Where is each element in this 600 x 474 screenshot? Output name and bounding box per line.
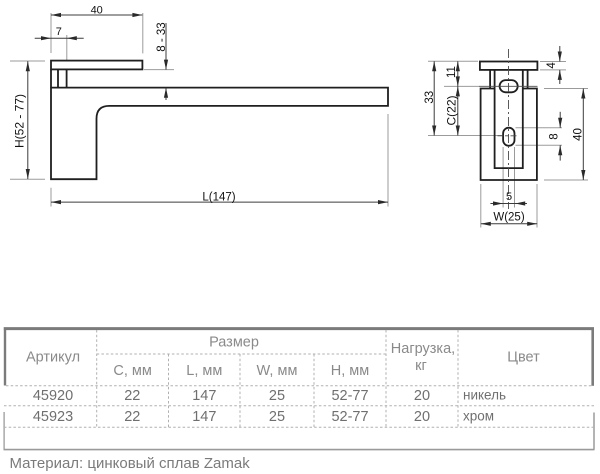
svg-text:40: 40 (91, 4, 103, 16)
svg-text:7: 7 (56, 26, 62, 38)
svg-text:52-77: 52-77 (331, 409, 368, 425)
svg-text:Цвет: Цвет (507, 350, 540, 366)
svg-text:52-77: 52-77 (331, 388, 368, 404)
svg-text:22: 22 (124, 409, 140, 425)
svg-text:4: 4 (546, 62, 558, 69)
svg-text:5: 5 (506, 191, 512, 203)
svg-text:11: 11 (446, 66, 458, 78)
svg-text:хром: хром (463, 408, 494, 423)
svg-text:20: 20 (414, 409, 430, 425)
svg-text:25: 25 (269, 388, 285, 404)
svg-text:L(147): L(147) (202, 191, 235, 203)
svg-text:22: 22 (124, 388, 140, 404)
svg-text:Артикул: Артикул (26, 350, 80, 366)
svg-text:25: 25 (269, 409, 285, 425)
svg-text:C(22): C(22) (445, 95, 459, 125)
svg-text:кг: кг (415, 358, 427, 374)
svg-text:45923: 45923 (33, 409, 73, 425)
svg-text:никель: никель (463, 387, 506, 402)
svg-text:С, мм: С, мм (113, 363, 151, 379)
svg-text:147: 147 (192, 409, 216, 425)
svg-text:H(52 - 77): H(52 - 77) (13, 94, 27, 148)
svg-text:W(25): W(25) (493, 212, 524, 224)
svg-text:20: 20 (414, 388, 430, 404)
svg-text:8: 8 (549, 133, 561, 139)
svg-text:Материал: цинковый сплав Zamak: Материал: цинковый сплав Zamak (10, 455, 251, 472)
svg-text:Нагрузка,: Нагрузка, (391, 341, 455, 357)
svg-text:45920: 45920 (33, 388, 73, 404)
svg-text:40: 40 (573, 128, 585, 141)
svg-text:33: 33 (424, 91, 436, 104)
svg-text:147: 147 (192, 388, 216, 404)
svg-text:8 - 33: 8 - 33 (156, 22, 168, 51)
svg-text:L, мм: L, мм (186, 363, 222, 379)
svg-text:Н, мм: Н, мм (331, 363, 369, 379)
svg-text:W, мм: W, мм (257, 363, 298, 379)
svg-text:Размер: Размер (209, 334, 259, 350)
